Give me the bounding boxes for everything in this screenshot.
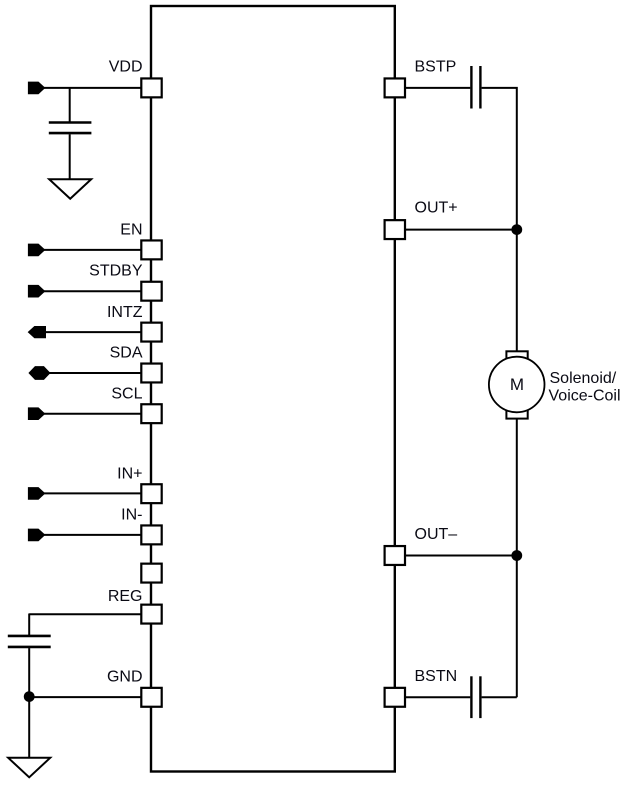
pin EN bbox=[141, 240, 161, 259]
pin OUT- bbox=[385, 546, 405, 565]
wire OUT+ down to motor bbox=[516, 230, 518, 352]
output terminal INTZ bbox=[28, 327, 45, 338]
wire EN bbox=[43, 249, 141, 251]
motor M1 bottom brush bbox=[506, 410, 527, 419]
svg-text:IN+: IN+ bbox=[117, 465, 142, 482]
pin OUT+ bbox=[385, 220, 405, 239]
svg-text:BSTN: BSTN bbox=[415, 668, 458, 685]
pin IN- bbox=[141, 525, 161, 544]
svg-text:BSTP: BSTP bbox=[415, 58, 457, 75]
wire VDD input to pin bbox=[43, 87, 141, 89]
capacitor C1 (VDD bypass) bbox=[49, 121, 92, 124]
wire OUT- down to BSTN cap bbox=[516, 556, 518, 698]
ground (VDD cap) bbox=[49, 179, 91, 199]
wire VDD cap top bbox=[69, 88, 71, 122]
pin GND bbox=[141, 688, 161, 707]
svg-text:M: M bbox=[510, 375, 524, 394]
input terminal VDD bbox=[28, 82, 44, 94]
wire BSTP to cap bbox=[405, 87, 470, 89]
wire REG down to cap bbox=[28, 614, 30, 636]
wire C1 to ground bbox=[69, 134, 71, 179]
wire junction to ground bbox=[28, 697, 30, 758]
wire C2 to junction bbox=[28, 648, 30, 697]
capacitor C2 (REG) bbox=[8, 635, 51, 638]
wire STDBY bbox=[43, 290, 141, 292]
input terminal SCL bbox=[28, 408, 44, 420]
wire SCL bbox=[43, 413, 141, 415]
junction dot (GND net) bbox=[24, 691, 35, 702]
wire IN- bbox=[43, 534, 141, 536]
wire SDA bbox=[44, 372, 141, 374]
IC body U1 bbox=[151, 6, 395, 772]
junction dot OUT+ bbox=[511, 224, 522, 235]
pin BSTN bbox=[385, 688, 405, 707]
svg-text:OUT+: OUT+ bbox=[415, 200, 458, 217]
pin REG bbox=[141, 605, 161, 624]
input terminal EN bbox=[28, 244, 44, 256]
svg-text:GND: GND bbox=[107, 669, 143, 686]
svg-text:INTZ: INTZ bbox=[107, 304, 143, 321]
pin SCL bbox=[141, 404, 161, 423]
svg-text:SDA: SDA bbox=[110, 344, 143, 361]
input terminal IN- bbox=[28, 529, 44, 541]
pin STDBY bbox=[141, 282, 161, 301]
pin VDD bbox=[141, 78, 161, 97]
motor M1 top brush bbox=[506, 351, 527, 360]
input terminal STDBY bbox=[28, 285, 44, 297]
wire REG left bbox=[29, 613, 141, 615]
wire BSTN to cap bbox=[405, 696, 470, 698]
pin BSTP bbox=[385, 78, 405, 97]
svg-text:VDD: VDD bbox=[109, 59, 143, 76]
pin IN+ bbox=[141, 484, 161, 503]
capacitor C4 (BSTN) bbox=[470, 676, 472, 718]
wire IN+ bbox=[43, 492, 141, 494]
input terminal IN+ bbox=[28, 488, 44, 500]
wire GND pin to junction bbox=[29, 696, 141, 698]
pin INTZ bbox=[141, 323, 161, 342]
capacitor C3 (BSTP) bbox=[470, 66, 472, 109]
wire motor to OUT- bbox=[516, 419, 518, 556]
svg-text:SCL: SCL bbox=[111, 385, 142, 402]
pin SDA bbox=[141, 364, 161, 383]
svg-text:IN-: IN- bbox=[121, 506, 142, 523]
wire C3 to right bus bbox=[482, 88, 517, 230]
junction dot OUT- bbox=[511, 550, 522, 561]
wire OUT- bbox=[405, 555, 517, 557]
wire C4 to right bus bbox=[482, 696, 517, 698]
svg-text:EN: EN bbox=[120, 222, 142, 239]
svg-text:Solenoid/: Solenoid/ bbox=[550, 370, 617, 387]
svg-text:Voice-Coil: Voice-Coil bbox=[549, 388, 621, 405]
wire INTZ bbox=[30, 331, 141, 333]
pin NC bbox=[141, 564, 161, 583]
bidirectional terminal SDA bbox=[29, 367, 50, 380]
svg-text:OUT–: OUT– bbox=[415, 526, 458, 543]
wire OUT+ bbox=[405, 229, 517, 231]
ground (bottom left) bbox=[8, 758, 50, 778]
svg-text:REG: REG bbox=[108, 588, 143, 605]
svg-text:STDBY: STDBY bbox=[89, 263, 143, 280]
motor M1 body bbox=[489, 357, 545, 413]
